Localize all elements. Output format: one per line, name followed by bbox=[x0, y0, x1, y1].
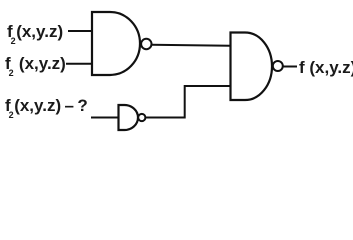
wire U1 output to U2 top input bbox=[152, 45, 231, 46]
input label f2(x,y.z) middle bbox=[5, 54, 66, 78]
wire U3 output to riser bbox=[146, 86, 231, 118]
input label f2(x,y.z) - ? bottom bbox=[5, 96, 88, 120]
wire input C to NAND U3 bbox=[91, 117, 119, 119]
wire input B to NAND U1 bbox=[66, 63, 93, 65]
svg-text:f (x,y.z): f (x,y.z) bbox=[299, 58, 353, 77]
svg-text:f2 (x,y.z): f2 (x,y.z) bbox=[5, 54, 66, 78]
svg-text:f2(x,y.z) – ?: f2(x,y.z) – ? bbox=[5, 96, 88, 120]
nand gate U3 (small) bbox=[119, 105, 146, 130]
nand gate U2 bbox=[231, 33, 283, 101]
nand gate U1 bbox=[92, 12, 152, 75]
output label f (x,y.z) bbox=[299, 58, 353, 77]
wire U2 output bbox=[283, 66, 297, 68]
svg-text:f2(x,y.z): f2(x,y.z) bbox=[7, 22, 63, 46]
input label f2(x,y.z) top bbox=[7, 22, 63, 46]
wire input A to NAND U1 bbox=[68, 30, 93, 32]
